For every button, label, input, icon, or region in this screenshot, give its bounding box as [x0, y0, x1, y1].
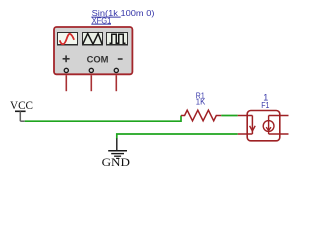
wire VCC to R1 [25, 116, 181, 122]
XFG1 square button [107, 33, 128, 45]
wire F1 to GND [117, 134, 238, 139]
XFG1 sine button [58, 33, 78, 45]
VCC power symbol [15, 111, 26, 121]
svg-text:F1: F1 [261, 100, 269, 110]
pin stub + [65, 75, 67, 91]
function generator XFG1 body [54, 27, 132, 74]
XFG1 triangle button [83, 33, 103, 45]
CCCS F1 body box [247, 111, 280, 141]
terminal label - [118, 58, 123, 60]
CCCS F1 right pin stub bottom [269, 133, 289, 135]
label XFG1 [91, 15, 111, 25]
terminal circle COM [89, 68, 93, 72]
wire R1 to F1 [221, 115, 237, 117]
CCCS F1 left pin lead top [238, 115, 253, 117]
terminal label + [63, 55, 70, 62]
CCCS F1 left pin lead bottom [238, 133, 253, 135]
CCCS F1 control branch with arrow [250, 116, 256, 135]
svg-text:GND: GND [102, 157, 130, 169]
svg-text:COM: COM [87, 54, 109, 64]
svg-text:VCC: VCC [10, 100, 33, 112]
terminal circle - [114, 68, 118, 72]
CCCS F1 right pin stub top [269, 115, 289, 117]
pin stub COM [90, 75, 92, 91]
terminal circle + [64, 68, 68, 72]
CCCS F1 current source circle with arrow [263, 116, 274, 135]
pin stub - [115, 75, 117, 91]
svg-text:1K: 1K [196, 97, 206, 107]
label Sin(1k 100m 0) [91, 8, 154, 18]
resistor R1 [181, 110, 221, 121]
ground [108, 139, 127, 159]
